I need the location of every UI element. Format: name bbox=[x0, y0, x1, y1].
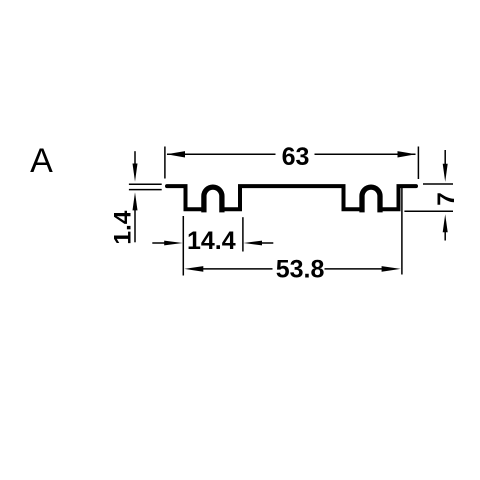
dim 1.4: bottom extension line bbox=[129, 189, 162, 191]
dim 14.4: left extension line (shared with 53.8) bbox=[182, 216, 184, 276]
dim 53.8: dimension line left segment bbox=[202, 268, 273, 270]
dim 14.4: left arrowhead (right) bbox=[164, 241, 183, 246]
dim 53.8: right arrowhead (right) bbox=[382, 266, 401, 272]
dim 1.4: lower dimension line bbox=[134, 209, 136, 242]
svg-text:63: 63 bbox=[282, 143, 310, 171]
dim 1.4: top extension line bbox=[129, 183, 162, 185]
dim 14.4: right extension line bbox=[242, 217, 244, 251]
dim 1.4: upper dimension line bbox=[134, 151, 136, 165]
dim 63: dimension line right segment bbox=[315, 153, 416, 155]
dim 53.8: right extension line bbox=[401, 188, 403, 275]
profile cross-section: main bent sheet bbox=[167, 186, 416, 209]
dim 53.8: left arrowhead (left) bbox=[184, 266, 203, 272]
screw boss omega left bbox=[204, 187, 222, 212]
dim 7: top extension line bbox=[423, 183, 453, 185]
dim 1.4: upper arrowhead (down) bbox=[133, 164, 138, 182]
screw boss omega right bbox=[362, 187, 380, 212]
dim 7: lower dimension line bbox=[444, 230, 446, 241]
svg-text:14.4: 14.4 bbox=[187, 227, 236, 255]
dim 63: right extension line bbox=[417, 147, 419, 180]
dim 7: upper arrowhead (down) bbox=[443, 164, 448, 182]
dim 63: right arrowhead bbox=[398, 151, 416, 157]
dim 1.4: lower arrowhead (up) bbox=[133, 192, 138, 210]
dim 14.4: left approach line bbox=[152, 242, 166, 244]
dim 63: left arrowhead bbox=[167, 151, 186, 157]
dim 7: upper dimension line bbox=[444, 150, 446, 165]
dim 14.4: right arrowhead (left) bbox=[244, 241, 263, 246]
svg-text:1.4: 1.4 bbox=[109, 210, 136, 244]
svg-text:A: A bbox=[30, 142, 53, 180]
svg-text:53.8: 53.8 bbox=[276, 255, 325, 283]
dim 63: left extension line bbox=[164, 147, 166, 179]
dim 7: bottom extension line bbox=[404, 210, 453, 212]
dim 53.8: dimension line right segment bbox=[325, 268, 384, 270]
dim 63: dimension line left segment bbox=[167, 153, 276, 155]
svg-text:7: 7 bbox=[433, 192, 460, 206]
dim 7: lower arrowhead (up) bbox=[443, 214, 448, 232]
dim 14.4: right approach line bbox=[262, 242, 274, 244]
